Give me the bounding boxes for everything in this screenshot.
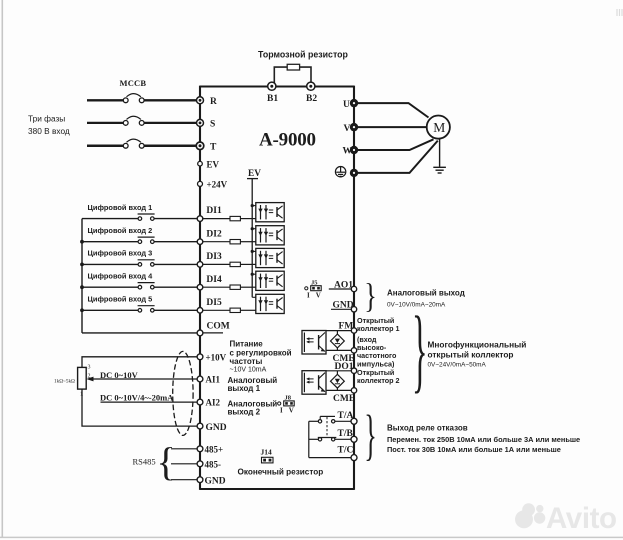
wire CME2 bottom — [326, 388, 352, 390]
wire CME bottom — [326, 348, 352, 351]
shielded cable ellipse — [173, 351, 193, 435]
svg-text:Аналоговый выход: Аналоговый выход — [387, 289, 465, 298]
terminal AO1 — [334, 280, 357, 291]
inverter box outline — [200, 86, 354, 490]
terminal FM — [339, 322, 357, 334]
svg-text:EV: EV — [248, 169, 261, 179]
photo bottom edge line — [0, 536, 623, 538]
svg-text:T/A: T/A — [338, 411, 354, 421]
terminal T/A — [338, 411, 358, 424]
svg-text:COM: COM — [207, 322, 230, 332]
svg-text:EV: EV — [207, 159, 220, 169]
svg-text:DI4: DI4 — [206, 275, 222, 285]
diode clamp FM — [331, 334, 345, 348]
digital input row DI5 — [82, 295, 256, 314]
EV rail stubs to optocouplers — [252, 206, 256, 298]
svg-text:Перемен. ток 250В 10мА или бол: Перемен. ток 250В 10мА или больше 3А или… — [387, 435, 580, 444]
relay contact T/B — [318, 438, 337, 441]
terminal AI1 — [197, 375, 220, 385]
svg-text:U: U — [343, 100, 350, 110]
terminal 485+ — [197, 445, 223, 455]
svg-text:GND: GND — [206, 423, 227, 433]
svg-text:DC 0~10V/4~-20mA: DC 0~10V/4~-20mA — [100, 393, 174, 403]
EV internal rail wire — [247, 179, 258, 298]
svg-text:RS485: RS485 — [133, 457, 156, 467]
terminal 485- — [197, 460, 221, 470]
terminal COM — [197, 322, 230, 336]
label Аналоговый выход 1 — [228, 376, 278, 393]
wire to GND rs485 — [171, 479, 197, 481]
svg-text:}: } — [364, 277, 377, 315]
label Многофункциональный открытый коллектор — [428, 340, 527, 369]
svg-text:{: { — [156, 439, 175, 484]
svg-text:коллектор 1: коллектор 1 — [357, 324, 400, 333]
wire brake resistor loop — [274, 67, 311, 83]
wire +10V to potentiometer — [82, 357, 197, 367]
terminal CME — [333, 348, 357, 365]
svg-text:S: S — [210, 120, 215, 130]
svg-text:Цифровой вход 2: Цифровой вход 2 — [88, 226, 153, 235]
label Три фазы 380 В вход — [28, 114, 70, 137]
svg-text:GND: GND — [205, 476, 226, 486]
svg-text:M: M — [433, 120, 445, 135]
wire W to motor — [358, 139, 434, 150]
svg-text:Тормозной резистор: Тормозной резистор — [258, 50, 349, 60]
digital input row DI2 — [82, 226, 256, 245]
relay contact T/A — [318, 416, 335, 437]
label Питание с регулировкой частоты — [230, 340, 292, 374]
optocoupler FM — [302, 331, 326, 355]
svg-text:коллектор 2: коллектор 2 — [357, 376, 400, 385]
breaker phase T — [87, 139, 198, 148]
svg-text:DI1: DI1 — [206, 206, 222, 216]
optocoupler DO1 — [302, 371, 326, 395]
wire U to motor — [358, 103, 429, 117]
svg-text:Три фазы: Три фазы — [28, 114, 65, 124]
svg-text:CME: CME — [333, 394, 355, 404]
svg-text:FM: FM — [339, 322, 354, 332]
svg-text:485+: 485+ — [205, 445, 224, 455]
motor M — [427, 116, 450, 139]
svg-text:DI3: DI3 — [206, 252, 222, 262]
svg-text:J14: J14 — [261, 448, 273, 457]
svg-text:+10V: +10V — [206, 352, 227, 362]
svg-text:Питание: Питание — [230, 340, 264, 349]
junction dots on DI common bus — [80, 240, 84, 312]
wire AI1 with wiper arrow — [86, 377, 197, 382]
svg-text:T: T — [210, 143, 217, 153]
terminal B2 — [306, 82, 317, 104]
svg-text:GND: GND — [333, 301, 354, 311]
wire GND stub — [331, 308, 352, 310]
svg-text:DI2: DI2 — [206, 229, 222, 239]
svg-text:DO1: DO1 — [335, 362, 354, 372]
label Открытый коллектор 1 — [357, 316, 400, 369]
terminal U — [343, 99, 358, 110]
digital input row DI1 — [82, 203, 256, 222]
wire COM common return — [82, 332, 197, 334]
svg-text:DC 0~10V: DC 0~10V — [100, 370, 139, 380]
optocoupler DI3 — [256, 248, 284, 267]
brace multifunction collector — [412, 298, 428, 402]
terminal AI2 — [197, 398, 220, 408]
svg-text:B1: B1 — [267, 94, 278, 104]
relay wiring — [309, 421, 352, 457]
svg-text:3: 3 — [88, 365, 91, 371]
terminal EV — [198, 159, 220, 169]
optocoupler DI4 — [256, 271, 284, 290]
motor earth ground — [433, 139, 446, 173]
wire pot to GND — [82, 389, 197, 426]
photo top right corner marks — [617, 9, 622, 16]
brace relay output — [364, 405, 377, 466]
terminal T/C — [338, 445, 358, 460]
svg-text:B2: B2 — [306, 94, 317, 104]
svg-text:выход 2: выход 2 — [228, 408, 261, 417]
svg-text:T/B: T/B — [338, 429, 354, 439]
optocoupler DI2 — [256, 226, 284, 245]
svg-text:R: R — [210, 97, 217, 107]
svg-text:Цифровой вход 3: Цифровой вход 3 — [88, 249, 153, 258]
svg-text:AI1: AI1 — [206, 375, 221, 385]
svg-text:}: } — [364, 405, 377, 466]
terminal DO1 — [335, 362, 357, 373]
svg-text:DI5: DI5 — [206, 298, 222, 308]
svg-text:485-: 485- — [205, 460, 222, 470]
photo left edge line — [1, 0, 3, 538]
label Открытый коллектор 2 — [357, 368, 400, 385]
terminal R — [197, 97, 218, 107]
jumper J5 — [305, 280, 322, 300]
digital input row DI3 — [82, 249, 256, 268]
terminal W — [343, 146, 359, 157]
DI left common bus wire — [81, 219, 83, 333]
digital input row DI4 — [82, 271, 256, 290]
wire FM top — [326, 331, 352, 335]
optocoupler DI1 — [256, 203, 284, 222]
wire AI2 — [101, 401, 198, 403]
potentiometer 1k-5k — [78, 365, 91, 398]
resistor brake — [287, 64, 299, 70]
optocoupler DI5 — [256, 294, 284, 313]
PE earth symbol — [335, 167, 345, 177]
EV rail junction dots — [251, 204, 254, 276]
svg-text:частоты: частоты — [230, 357, 263, 366]
svg-text:380 В вход: 380 В вход — [28, 126, 70, 136]
svg-text:1kΩ~5kΩ: 1kΩ~5kΩ — [54, 378, 75, 384]
svg-text:0V~24V/0mA~50mA: 0V~24V/0mA~50mA — [428, 362, 487, 369]
svg-text:Цифровой вход 1: Цифровой вход 1 — [88, 203, 153, 212]
breaker phase S — [87, 116, 198, 125]
svg-text:Оконечный резистор: Оконечный резистор — [238, 468, 324, 477]
terminal T/B — [338, 429, 358, 442]
svg-text:I: I — [280, 407, 283, 415]
jumper J14 — [261, 448, 274, 463]
wire AO1 stub — [329, 288, 352, 290]
svg-text:A-9000: A-9000 — [259, 130, 316, 151]
svg-text:V: V — [289, 407, 294, 415]
svg-text:выход 1: выход 1 — [228, 384, 261, 393]
svg-text:MCCB: MCCB — [120, 78, 147, 88]
terminal PE dot — [350, 169, 358, 177]
svg-text:T/C: T/C — [338, 445, 354, 455]
label Аналоговый выход 2 — [228, 400, 278, 417]
svg-text:~10V 10mA: ~10V 10mA — [230, 367, 267, 374]
svg-text:V: V — [316, 291, 321, 299]
Avito watermark logo circles — [515, 503, 545, 528]
wire to 485+ — [171, 448, 197, 450]
svg-text:AO1: AO1 — [334, 280, 353, 290]
svg-text:Цифровой вход 5: Цифровой вход 5 — [88, 295, 153, 304]
terminal CME 2 — [333, 388, 357, 405]
svg-text:W: W — [343, 147, 353, 157]
terminal +24V — [198, 180, 228, 190]
svg-text:Avito: Avito — [546, 502, 617, 535]
wire to 485- — [171, 463, 197, 465]
svg-text:Выход реле отказов: Выход реле отказов — [387, 424, 468, 433]
svg-text:+24V: +24V — [207, 180, 228, 190]
wire DO1 top — [326, 371, 352, 375]
terminal GND analog out — [333, 301, 357, 312]
terminal GND analog — [197, 423, 227, 433]
svg-text:Цифровой вход 4: Цифровой вход 4 — [88, 271, 154, 280]
svg-text:AI2: AI2 — [206, 398, 221, 408]
breaker phase R — [87, 94, 198, 103]
svg-text:Многофункциональный: Многофункциональный — [428, 340, 527, 350]
svg-text:}: } — [412, 298, 428, 402]
svg-text:Пост. ток 30В 10мА или больше: Пост. ток 30В 10мА или больше 1А или мен… — [387, 445, 561, 454]
wire PE to motor ground — [358, 141, 438, 173]
svg-text:I: I — [307, 291, 310, 299]
wire COM right stub — [203, 332, 223, 334]
diode clamp DO1 — [331, 374, 345, 388]
jumper J8 — [278, 395, 295, 415]
svg-text:открытый коллектор: открытый коллектор — [428, 350, 514, 360]
wire V to motor — [358, 126, 427, 128]
brace analog output — [364, 277, 377, 315]
terminal S — [197, 119, 216, 129]
svg-text:V: V — [344, 124, 351, 134]
terminal GND rs485 — [197, 476, 226, 486]
terminal V — [344, 123, 359, 134]
terminal T — [196, 142, 217, 153]
terminal B1 — [267, 82, 278, 104]
terminal +10V — [197, 352, 227, 362]
